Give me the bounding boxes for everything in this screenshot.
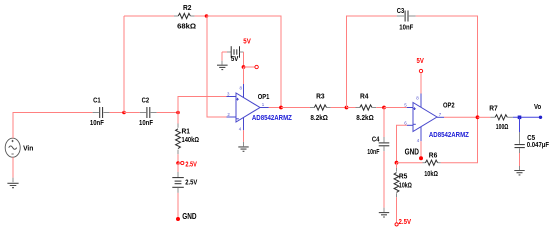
resistor R5 10k (394, 163, 412, 198)
svg-text:10nF: 10nF (399, 23, 414, 32)
svg-text:10nF: 10nF (367, 147, 380, 156)
wire OP2 output to node I (444, 116, 478, 118)
net connector 5V open circle (OP2) (419, 69, 422, 72)
node F junction (C3 tap) (345, 106, 349, 110)
capacitor C1 (90, 95, 110, 127)
node J junction (C5 tap, blue) (518, 116, 522, 120)
source V_in AC symbol (5, 138, 20, 157)
svg-text:GND: GND (182, 211, 196, 221)
op-amp OP1 (227, 84, 269, 131)
capacitor C5 (515, 132, 550, 153)
svg-text:2.5V: 2.5V (185, 178, 197, 187)
svg-text:C3: C3 (397, 6, 405, 15)
resistor R4 8.2k (347, 92, 377, 122)
wire C5 to ground (519, 153, 521, 166)
node D junction (5V) (242, 65, 246, 69)
svg-text:R6: R6 (429, 150, 438, 159)
wire R5 to 2.5V connector (396, 197, 398, 222)
wire R1 to 2.5V node (177, 154, 179, 163)
wire C3 to OP2 output rail (416, 16, 478, 117)
wire C4 to ground (383, 151, 385, 207)
svg-text:C1: C1 (93, 95, 101, 104)
wire OP2 V- to GND tap (420, 141, 422, 158)
svg-text:10kΩ: 10kΩ (399, 181, 412, 190)
node junction 2.5V tap (176, 161, 180, 165)
wire OP1 V- to ground (243, 130, 245, 142)
ground (5V supply) (217, 61, 228, 70)
svg-text:R4: R4 (360, 92, 369, 101)
svg-text:140kΩ: 140kΩ (182, 135, 200, 144)
node GND dot (176, 217, 180, 221)
resistor R3 8.2k (281, 92, 331, 122)
ground (C5) (514, 166, 524, 175)
svg-text:OP1: OP1 (258, 92, 270, 101)
ground (OP1 V-) (238, 142, 248, 151)
svg-text:10kΩ: 10kΩ (424, 169, 438, 178)
svg-text:R2: R2 (183, 3, 192, 12)
svg-text:R5: R5 (399, 171, 408, 180)
wire node B to OP1 + input (178, 97, 227, 113)
svg-text:2.5V: 2.5V (185, 159, 197, 168)
svg-text:5V: 5V (243, 36, 251, 45)
wire node C down to OP1 - input (207, 16, 227, 117)
net connector 5V (open circle) (244, 65, 259, 68)
node Vo terminal (blue) (539, 116, 542, 119)
wire node A up to feedback rail (123, 16, 125, 113)
wire OP1 output to node E (269, 107, 281, 109)
resistor R7 100 ohm (478, 104, 513, 132)
svg-text:8.2kΩ: 8.2kΩ (356, 113, 374, 122)
ground (C4) (379, 208, 389, 217)
svg-text:C2: C2 (142, 95, 150, 104)
wire 2.5V node to battery V2 (177, 163, 179, 172)
node A junction (C1/C2/R2 tap) (122, 111, 126, 115)
wire node C to OP1 output rail (207, 16, 282, 108)
wire Vin bottom to ground (12, 157, 14, 177)
svg-text:8.2kΩ: 8.2kΩ (310, 113, 328, 122)
wire OP2 - input to node H (397, 125, 407, 162)
svg-text:GND: GND (405, 146, 419, 156)
svg-text:C4: C4 (372, 134, 380, 143)
node I junction (OP2 out) (476, 115, 480, 119)
op-amp OP2 (404, 94, 444, 143)
wire 5V connector to OP2 V+ (420, 73, 422, 94)
svg-text:5V: 5V (417, 56, 424, 65)
svg-text:R7: R7 (489, 104, 498, 113)
svg-text:OP2: OP2 (443, 101, 455, 110)
svg-text:AD8542ARMZ: AD8542ARMZ (429, 130, 469, 139)
svg-text:68kΩ: 68kΩ (177, 22, 196, 31)
resistor R2 68k feedback (124, 3, 196, 30)
battery V2 2.5V (172, 172, 197, 193)
wire Vin to C1 (13, 113, 93, 139)
net connector 2.5V open circle (R5) (395, 223, 398, 226)
wire C2 to node B (157, 112, 178, 114)
node G junction (C4 tap) (382, 106, 386, 110)
svg-text:10nF: 10nF (139, 118, 154, 127)
svg-text:2.5V: 2.5V (399, 217, 412, 226)
capacitor C4 (367, 134, 389, 156)
node H junction (R5/R6) (395, 161, 399, 165)
wire R7 to Vo (blue net) (513, 116, 541, 118)
svg-text:100Ω: 100Ω (496, 122, 509, 131)
wire node G down to C4 (383, 108, 385, 138)
capacitor C3 (397, 6, 416, 32)
svg-text:0.047μF: 0.047μF (527, 140, 550, 149)
node GND dot (OP2) (419, 156, 423, 160)
wire C1 to node A (110, 112, 124, 114)
svg-text:5V: 5V (231, 54, 239, 63)
wire node F up to C3 rail (347, 16, 397, 108)
svg-text:R3: R3 (316, 92, 325, 101)
wire battery V2 to GND (177, 193, 179, 219)
svg-text:Vo: Vo (534, 102, 542, 111)
wire node J down to C5 (519, 117, 521, 132)
node C junction (feedback tap) (205, 14, 209, 18)
resistor R1 140k (176, 113, 200, 155)
resistor R6 10k (397, 150, 441, 178)
wire battery V3 to node D (243, 52, 245, 67)
wire R2 to node C (195, 15, 207, 17)
wire battery V3 left to ground (221, 52, 223, 61)
svg-text:10nF: 10nF (90, 118, 105, 127)
net connector 2.5V (open circle) (178, 161, 184, 164)
capacitor C2 (124, 95, 157, 127)
wire R4 to node G (376, 107, 384, 109)
battery V3 5V supply (222, 46, 244, 63)
svg-text:Vin: Vin (23, 143, 33, 152)
node B junction (C2/R1/op-amp +) (176, 111, 180, 115)
wire R3 to node F (331, 107, 347, 109)
wire node D to OP1 V+ (243, 67, 245, 84)
svg-text:AD8542ARMZ: AD8542ARMZ (252, 113, 292, 122)
wire R6 to output rail (441, 117, 478, 162)
ground (below Vin) (7, 178, 18, 188)
wire node G to OP2 + input (384, 107, 407, 109)
node E junction (OP1 out) (279, 106, 283, 110)
